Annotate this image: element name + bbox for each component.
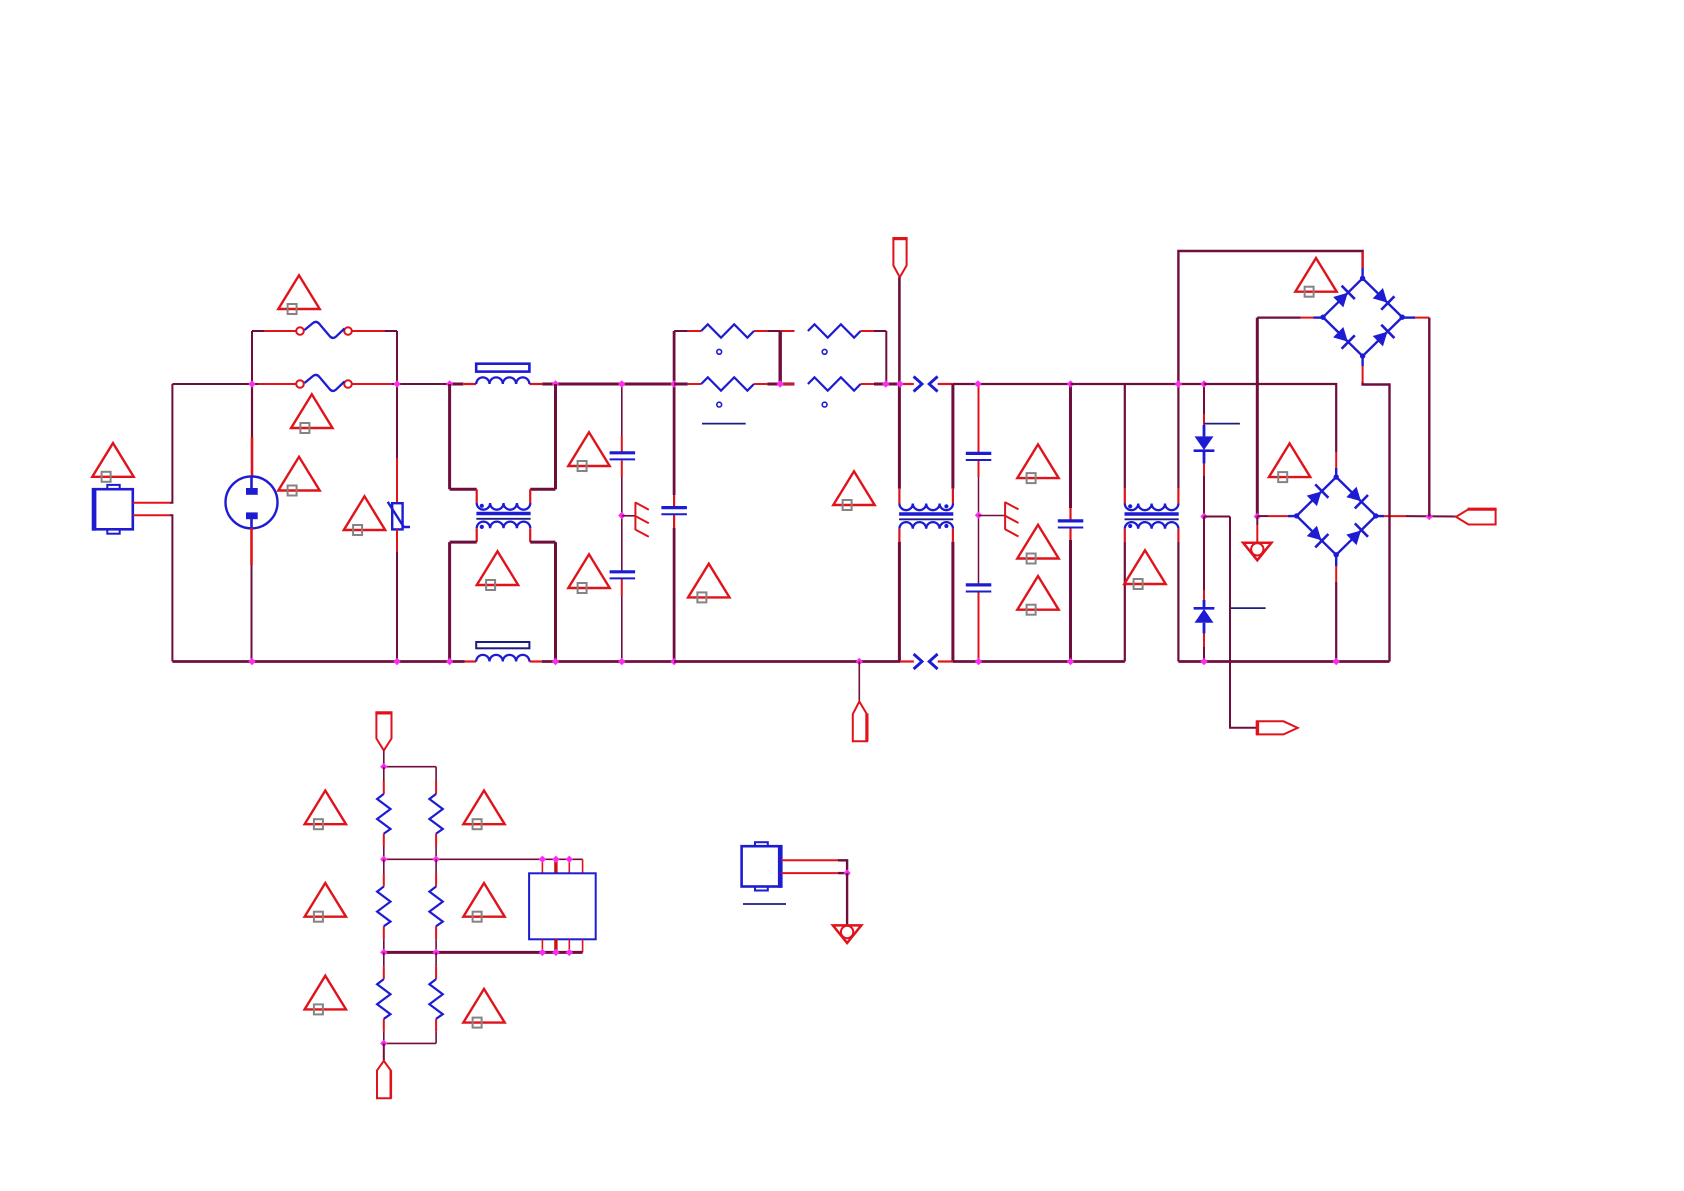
junction bottom rail x397 <box>393 658 400 665</box>
warning triangle near top bridge <box>1295 258 1336 297</box>
junction bottom rail x674.1 <box>670 658 677 665</box>
wire main row continues right <box>953 383 1071 385</box>
protective earth symbol 2 <box>833 925 861 943</box>
resistor RN2 <box>429 794 442 834</box>
wire column A row1 <box>383 767 385 781</box>
wire T3 left vertical upper <box>1124 384 1126 489</box>
transformer T3 <box>1125 504 1179 529</box>
junction bottom rail x1070.5 <box>1067 658 1074 665</box>
warning triangle left of RV1 <box>344 496 385 535</box>
dot lower winding T3 <box>1128 524 1132 528</box>
wire lower bridge right to output flag <box>1376 515 1384 517</box>
dot lower winding T1 <box>480 525 484 529</box>
polarity dot R4 <box>822 402 827 407</box>
wire column B row1 <box>435 767 437 781</box>
junction bottom rail x555.5 <box>552 658 559 665</box>
wire cap column x1070.5 <box>1069 384 1072 508</box>
varistor RV1 <box>388 502 410 530</box>
junction bottom rail x859.3 <box>856 658 863 665</box>
junction main row x780.2 <box>777 380 784 387</box>
wire flag to main row <box>898 277 901 384</box>
wire resistor right vertical x886.3 <box>885 331 887 384</box>
wire main row resistor section <box>674 383 688 386</box>
junction output row x1204 <box>1200 513 1207 520</box>
flag port network bottom <box>377 1061 391 1098</box>
wire top bridge right corner down to output row <box>1402 316 1415 318</box>
wire down to PE symbol 2 <box>846 873 848 925</box>
connector J1 AC input body <box>93 485 133 534</box>
warning triangle right of lamp <box>278 457 319 496</box>
wire output row to x1230 corner <box>1204 516 1230 518</box>
diode D2 <box>1194 608 1215 623</box>
inductor L1 top <box>476 377 529 384</box>
warning triangle net row3 left <box>305 976 346 1015</box>
junction bottom rail x1336.2 <box>1333 658 1340 665</box>
capacitor C6 <box>1058 521 1084 528</box>
junction J2 x847.1 <box>843 869 850 876</box>
wire varistor column upper <box>396 384 398 458</box>
chevron connector pair top <box>914 377 938 392</box>
junction bottom rail x978.5 <box>975 658 982 665</box>
wire T2 left vertical upper <box>898 384 901 489</box>
resistor RN4 <box>429 887 442 927</box>
common-mode choke T1 <box>476 503 530 528</box>
wire lamp column lower <box>250 528 253 565</box>
wire bottom rail right section <box>1178 660 1389 663</box>
wire network bottom horizontal <box>384 1042 436 1044</box>
wire cap column x621.8 <box>621 384 623 436</box>
junction main row x621.8 <box>618 380 625 387</box>
junction output row x1257.3 <box>1254 513 1261 520</box>
IC stubs top <box>542 859 582 873</box>
wire junction to bottom flag <box>383 1043 385 1061</box>
junction network top <box>380 763 387 770</box>
resistor R1 <box>701 324 754 337</box>
warning triangle near lower bridge <box>1269 443 1310 482</box>
dot lower winding T2 <box>944 524 948 528</box>
junction main row x1070.5 <box>1067 380 1074 387</box>
junction output row x1429.3 <box>1426 513 1433 520</box>
junction main row x899.4 <box>896 380 903 387</box>
wire bottom rail choke section <box>465 660 477 662</box>
wire top bridge left corner <box>1314 316 1323 318</box>
diode D1 <box>1194 436 1215 450</box>
wire J1 L up to main row <box>170 384 172 503</box>
wire T3 right vertical upper <box>1177 384 1179 489</box>
junction bottom rail x449.6 <box>446 658 453 665</box>
flag port bottom middle <box>853 702 867 742</box>
chassis ground 2 <box>1005 502 1018 537</box>
resistor RN5 <box>377 979 390 1019</box>
junction bottom rail x621.8 <box>618 658 625 665</box>
warning triangle net row2 left <box>305 883 346 922</box>
wire column A row2 <box>383 859 385 873</box>
wire fuse loop left vertical <box>251 331 253 384</box>
warning triangle above J1 <box>92 443 133 482</box>
bridge rectifier BR2 lower <box>1294 474 1379 557</box>
wire choke upper left step <box>450 488 477 491</box>
wire choke right vertical upper <box>554 384 557 489</box>
resistor RN6 <box>429 979 442 1019</box>
capacitor C2 <box>610 572 636 579</box>
wire top rail <box>1178 251 1362 384</box>
wire resistor top row <box>674 330 688 332</box>
connector J2 body <box>742 842 782 890</box>
junction IC top pins <box>539 856 546 863</box>
flag port network top <box>375 713 392 751</box>
wire choke right vertical lower <box>554 542 557 661</box>
flag port top <box>892 239 907 278</box>
wire column A row3 <box>383 952 385 966</box>
junction bottom rail x252 <box>248 658 255 665</box>
wire to chassis ground 1 <box>622 515 636 517</box>
wire fuse loop right vertical <box>396 331 398 384</box>
wire cap column x978.5 <box>978 384 980 452</box>
polarity dot R1 <box>717 349 722 354</box>
wire bottom rail chevron segment <box>900 660 914 662</box>
junction net mid B <box>432 856 439 863</box>
wire bottom rail left section <box>172 660 464 663</box>
wire choke lower right step <box>529 528 531 542</box>
wire fuse F1 row <box>252 330 264 332</box>
wire T2 right vertical lower <box>952 529 954 542</box>
capacitor C5 <box>966 585 992 592</box>
wire column B row3 <box>435 952 437 966</box>
pin 2 of J2 <box>781 872 838 874</box>
IC stubs bottom <box>542 939 582 952</box>
wire network top horizontal <box>384 766 436 768</box>
junction bottom rail x1204 <box>1200 658 1207 665</box>
polarity dot R2 <box>822 349 827 354</box>
junction main row x555.5 <box>552 380 559 387</box>
pin N of J1 <box>133 514 170 516</box>
wire fuse F2 row <box>258 383 296 385</box>
wire x1230 vertical to lower flag <box>1230 517 1257 728</box>
capacitor C1 <box>610 453 636 460</box>
neon lamp DS1 <box>226 476 278 528</box>
polarity dot R3 <box>717 402 722 407</box>
wire below D2 <box>1203 623 1206 634</box>
warning triangle sec 3 <box>1017 576 1058 615</box>
junction main row x674.1 <box>670 380 677 387</box>
wire T3 left vertical lower <box>1124 529 1126 542</box>
wire choke lower left step <box>476 528 478 542</box>
wire top rail into bridge top <box>1362 252 1364 268</box>
warning triangle left of C1 <box>568 432 609 471</box>
junction net mid A <box>380 856 387 863</box>
pin L of J1 <box>133 502 170 504</box>
flag port lower right <box>1257 721 1298 736</box>
core bar of L1 <box>476 364 529 372</box>
warning triangle net row1 right <box>463 791 504 830</box>
wire x1257.3 vertical from top bridge <box>1256 318 1259 517</box>
warning triangle below F2 <box>291 394 332 433</box>
wire main row secondary segment <box>1071 383 1205 385</box>
wire T2 left vertical lower <box>898 529 900 542</box>
capacitor C4 <box>966 453 992 460</box>
resistor R3 <box>701 377 754 390</box>
wire main row L segment <box>172 383 258 385</box>
inductor L2 bottom <box>476 655 529 662</box>
warning triangle below T3 <box>1124 550 1165 589</box>
wire J2 pin1 corner down <box>838 860 847 873</box>
capacitor C3 <box>661 508 687 515</box>
warning triangle net row3 right <box>463 989 504 1028</box>
junction main row x252 <box>248 380 255 387</box>
wire network bottom thick row <box>383 951 583 954</box>
wire diode column upper <box>1203 384 1205 414</box>
junction main row x1178.4 <box>1175 380 1182 387</box>
fuse F1 <box>296 322 352 338</box>
warning triangle above F1 <box>278 275 319 314</box>
wire main row choke section <box>450 383 464 386</box>
wire network mid horizontal row <box>384 858 583 860</box>
warning triangle mid section <box>833 471 874 510</box>
warning triangle below T1 <box>477 551 518 590</box>
wire resistor mid vertical x780.2 <box>779 331 782 384</box>
wire lamp column upper <box>251 384 253 437</box>
junction main row x1204 <box>1200 380 1207 387</box>
warning triangle left of C2 <box>568 554 609 593</box>
wire lower bridge bottom to rail <box>1335 555 1337 566</box>
resistor RN1 <box>377 794 390 834</box>
chassis ground 1 <box>635 502 648 537</box>
wire choke left vertical lower <box>448 542 451 661</box>
pin 1 of J2 <box>781 859 838 861</box>
wire corner x952.9 down to winding <box>951 384 954 489</box>
wire main row to chevron top <box>900 383 914 385</box>
wire chevron to corner top <box>938 383 953 385</box>
warning triangle below C3 <box>688 564 729 603</box>
label line of D2 <box>1231 607 1266 609</box>
warning triangle net row2 right <box>463 883 504 922</box>
label line under J2 <box>743 903 786 905</box>
wire diode column lower <box>1203 517 1205 591</box>
wire choke upper right step <box>530 488 555 491</box>
label line under R3 <box>702 423 746 425</box>
junction net bottom B <box>432 949 439 956</box>
wire stub to PE symbol <box>1256 517 1258 526</box>
junction net bottom A <box>380 949 387 956</box>
wire between D1 and output row <box>1203 451 1206 464</box>
warning triangle sec 1 <box>1017 444 1058 483</box>
wire bottom rail mid section <box>674 660 859 663</box>
bridge rectifier BR1 top <box>1320 276 1405 359</box>
wire chevron to corner bottom <box>938 660 953 662</box>
wire main row to lower bridge top <box>1204 384 1336 452</box>
junction x621.8 mid <box>618 512 625 519</box>
junction x978.5 mid <box>975 512 982 519</box>
transformer T2 <box>899 504 953 529</box>
resistor R4 <box>808 377 861 390</box>
junction network bottom <box>380 1040 387 1047</box>
core bar of L2 <box>476 642 529 648</box>
wire J2 pin2 to junction <box>838 872 847 874</box>
wire varistor column lower <box>396 529 398 552</box>
flag port output right <box>1456 509 1497 524</box>
wire to chassis ground 2 <box>979 515 1006 517</box>
fuse F2 <box>296 375 352 391</box>
wire J1 N down to bottom rail <box>170 515 172 661</box>
junction IC bottom pins <box>539 949 546 956</box>
wire bottom rail continues right <box>953 660 1125 663</box>
junction main row x885.8 <box>882 380 889 387</box>
wire T3 right vertical lower <box>1177 529 1179 542</box>
IC box U1 <box>529 873 596 939</box>
warning triangle net row1 left <box>305 791 346 830</box>
resistor R2 <box>808 324 861 337</box>
junction main row x449.6 <box>446 380 453 387</box>
resistor RN3 <box>377 887 390 927</box>
wire cap column x674.1 <box>673 331 676 384</box>
wire stub to flag below rail <box>858 662 860 702</box>
dot upper winding T2 <box>944 504 948 508</box>
chevron connector pair bottom <box>914 654 938 669</box>
junction main row x978.5 <box>974 380 981 387</box>
warning triangle sec 2 <box>1017 525 1058 564</box>
dot upper winding T1 <box>480 504 484 508</box>
wire column B row2 <box>435 859 437 873</box>
dot upper winding T3 <box>1128 504 1132 508</box>
wire flag to network top junction <box>383 751 385 767</box>
junction main row x397 <box>393 380 400 387</box>
wire top bridge bottom corner to right drop <box>1361 356 1363 366</box>
wire choke left vertical upper <box>448 384 451 489</box>
wire output row to lower bridge left <box>1257 515 1268 517</box>
label line of D1 <box>1204 423 1240 425</box>
protective earth symbol 1 <box>1243 543 1271 561</box>
